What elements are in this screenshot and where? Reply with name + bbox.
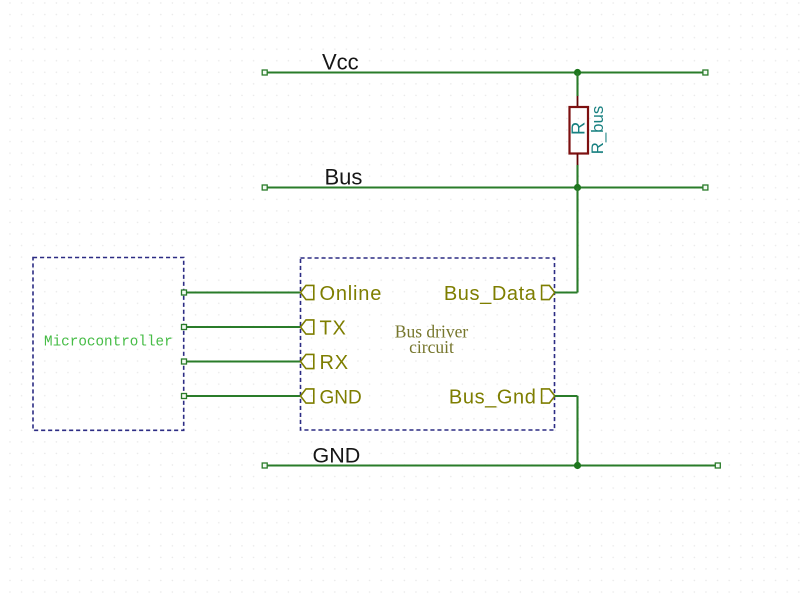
svg-text:TX: TX	[320, 317, 347, 339]
svg-text:Bus: Bus	[325, 165, 363, 190]
svg-text:Vcc: Vcc	[322, 50, 359, 75]
wire Bus_Gnd down to GND	[576, 396, 578, 466]
svg-text:circuit: circuit	[409, 337, 454, 357]
svg-text:R: R	[568, 122, 589, 135]
unconnected end square RX at U1	[182, 359, 187, 364]
pin symbol Bus_Gnd	[542, 389, 555, 403]
junction GND / Bus_Gnd	[574, 462, 581, 469]
svg-text:GND: GND	[313, 444, 361, 468]
unconnected end square Bus left	[262, 185, 267, 190]
wire Bus horizontal	[265, 186, 705, 188]
unconnected end square Online at U1	[182, 290, 187, 295]
pin symbol GND	[301, 389, 314, 403]
unconnected end square Vcc left	[262, 70, 267, 75]
unconnected end square Bus right	[703, 185, 708, 190]
unconnected end square GND right	[715, 463, 720, 468]
wire TX	[184, 326, 300, 328]
unconnected end square GND left	[262, 463, 267, 468]
svg-text:Microcontroller: Microcontroller	[44, 334, 173, 350]
wire Bus down to Bus_Data	[576, 188, 578, 293]
svg-text:Bus_Gnd: Bus_Gnd	[449, 386, 537, 408]
pin symbol RX	[301, 354, 314, 368]
wire GND horizontal	[265, 464, 716, 466]
svg-text:RX: RX	[320, 352, 349, 374]
unconnected end square Vcc right	[703, 70, 708, 75]
pin symbol Online	[301, 285, 314, 299]
bus driver box U2	[301, 258, 555, 430]
microcontroller box U1	[33, 258, 184, 431]
wire Bus_Gnd horizontal	[555, 395, 578, 397]
wire GND pin	[184, 395, 300, 397]
resistor R1 pin 2 lead	[577, 154, 579, 166]
wire Bus_Data to vertical	[555, 291, 578, 293]
svg-text:GND: GND	[320, 387, 362, 408]
pin symbol Bus_Data	[542, 285, 555, 299]
wire RX	[184, 360, 300, 362]
svg-text:R_bus: R_bus	[588, 106, 607, 155]
resistor R1 body	[570, 107, 589, 154]
unconnected end square GND at U1	[182, 394, 187, 399]
junction Bus / Bus_Data	[574, 184, 581, 191]
svg-text:Bus_Data: Bus_Data	[444, 283, 537, 305]
resistor R1 pin 1 lead	[577, 96, 579, 107]
wire Vcc horizontal	[265, 71, 705, 73]
wire R1 bottom to Bus	[576, 165, 578, 188]
wire Online	[184, 291, 300, 293]
pin symbol TX	[301, 320, 314, 334]
junction Vcc / R_bus	[574, 69, 581, 76]
svg-text:Online: Online	[320, 283, 383, 305]
wire Vcc to R1 top	[576, 73, 578, 97]
unconnected end square TX at U1	[182, 325, 187, 330]
